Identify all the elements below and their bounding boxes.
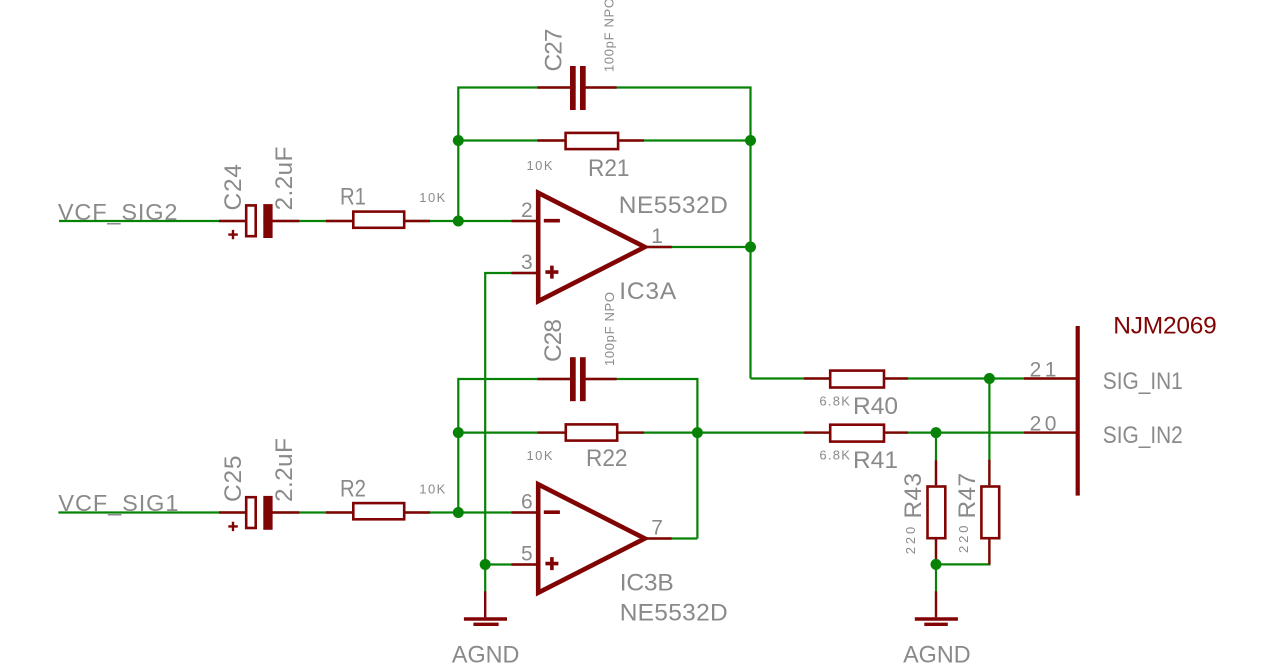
svg-text:2.2uF: 2.2uF <box>271 147 298 211</box>
svg-text:NE5532D: NE5532D <box>619 192 728 219</box>
svg-text:10K: 10K <box>527 158 553 173</box>
svg-text:3: 3 <box>521 251 533 274</box>
svg-text:220: 220 <box>903 527 918 555</box>
svg-text:R41: R41 <box>853 447 898 474</box>
svg-text:R2: R2 <box>340 476 366 503</box>
svg-text:100pF NPO: 100pF NPO <box>602 292 617 366</box>
svg-text:2.2uF: 2.2uF <box>271 438 298 502</box>
svg-text:R22: R22 <box>586 445 628 472</box>
svg-text:R40: R40 <box>853 393 898 420</box>
svg-text:AGND: AGND <box>452 642 520 669</box>
svg-text:1: 1 <box>651 225 663 248</box>
svg-text:10K: 10K <box>419 482 445 497</box>
svg-text:7: 7 <box>651 517 663 540</box>
svg-text:R1: R1 <box>340 184 366 211</box>
svg-text:SIG_IN2: SIG_IN2 <box>1103 422 1183 449</box>
svg-text:AGND: AGND <box>903 642 971 669</box>
svg-text:6: 6 <box>521 491 533 514</box>
svg-text:NE5532D: NE5532D <box>620 600 728 627</box>
svg-text:10K: 10K <box>419 190 445 205</box>
svg-text:VCF_SIG2: VCF_SIG2 <box>58 199 177 225</box>
svg-text:C25: C25 <box>220 456 247 503</box>
svg-text:5: 5 <box>521 543 533 566</box>
svg-text:100pF NPO: 100pF NPO <box>602 0 617 72</box>
svg-text:R47: R47 <box>954 473 981 519</box>
svg-text:R43: R43 <box>900 473 927 519</box>
svg-text:10K: 10K <box>527 448 553 463</box>
svg-text:6.8K: 6.8K <box>819 393 850 408</box>
svg-text:220: 220 <box>956 526 971 554</box>
svg-text:6.8K: 6.8K <box>819 447 850 462</box>
svg-text:NJM2069: NJM2069 <box>1113 313 1217 340</box>
svg-text:R21: R21 <box>588 155 630 182</box>
svg-text:C28: C28 <box>540 319 567 362</box>
svg-text:IC3A: IC3A <box>619 278 677 305</box>
svg-text:IC3B: IC3B <box>620 569 674 596</box>
svg-text:VCF_SIG1: VCF_SIG1 <box>58 490 178 516</box>
svg-text:C27: C27 <box>541 29 568 72</box>
svg-text:SIG_IN1: SIG_IN1 <box>1103 368 1183 395</box>
svg-text:2: 2 <box>521 199 533 222</box>
svg-text:C24: C24 <box>220 164 247 211</box>
